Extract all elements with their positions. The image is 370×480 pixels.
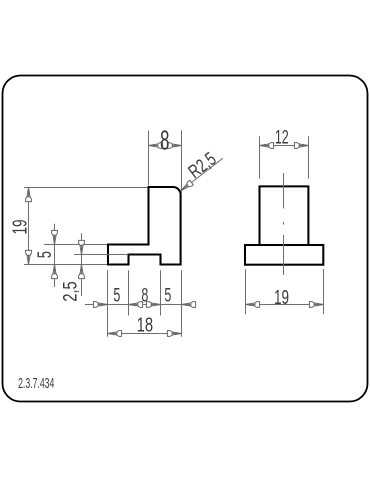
- dim 19 left: dimension line: [28, 188, 30, 265]
- dim 18: arrows: [108, 331, 122, 337]
- dim 19 left: arrows: [26, 188, 32, 202]
- dim 5 left: dimension line: [54, 224, 56, 287]
- right view centerline: [283, 173, 285, 209]
- dim 2,5: dimension line: [81, 233, 83, 296]
- dim 5 left: extension line: [44, 244, 107, 246]
- dim 8 top: dimension line: [149, 145, 159, 147]
- dim 12: arrows: [260, 143, 274, 149]
- dim 8 top: arrows: [149, 143, 163, 149]
- svg-text:8: 8: [160, 124, 169, 155]
- dim 19 left: extension lines: [24, 187, 148, 189]
- dim 12: dimension line: [260, 145, 309, 147]
- svg-text:18: 18: [137, 313, 154, 336]
- svg-text:5: 5: [164, 285, 171, 306]
- svg-text:2.3.7.434: 2.3.7.434: [18, 375, 54, 392]
- dim 8 top: extension lines: [148, 131, 150, 186]
- dim 19 right: extension lines: [245, 269, 247, 314]
- svg-text:12: 12: [275, 127, 289, 148]
- svg-text:2,5: 2,5: [60, 281, 81, 302]
- dim 2,5: arrows: [79, 240, 85, 254]
- svg-text:5: 5: [113, 285, 120, 306]
- dim 18: dimension line: [108, 333, 182, 335]
- dim 12: extension lines: [259, 136, 261, 179]
- dim 5 left: arrows: [52, 230, 58, 244]
- dims 5-8-5: arrows: [93, 302, 107, 308]
- dim 19 right: arrows: [246, 302, 260, 308]
- dims 5-8-5: dimension line: [85, 304, 196, 306]
- svg-text:19: 19: [8, 219, 32, 234]
- dim 19 right: dimension line: [246, 304, 324, 306]
- drawing frame border: [3, 76, 368, 402]
- leader R2,5: line: [180, 158, 223, 191]
- dim 2,5: extension line: [74, 254, 129, 256]
- leader R2,5: arrow: [179, 180, 194, 193]
- right view: column outline: [260, 186, 309, 245]
- svg-text:5: 5: [34, 251, 55, 258]
- right view: flange outline: [245, 245, 323, 265]
- dims 5-8-5: extension lines: [107, 270, 109, 337]
- svg-text:8: 8: [141, 285, 148, 306]
- left view: part outline: [108, 187, 181, 265]
- svg-text:19: 19: [274, 285, 289, 309]
